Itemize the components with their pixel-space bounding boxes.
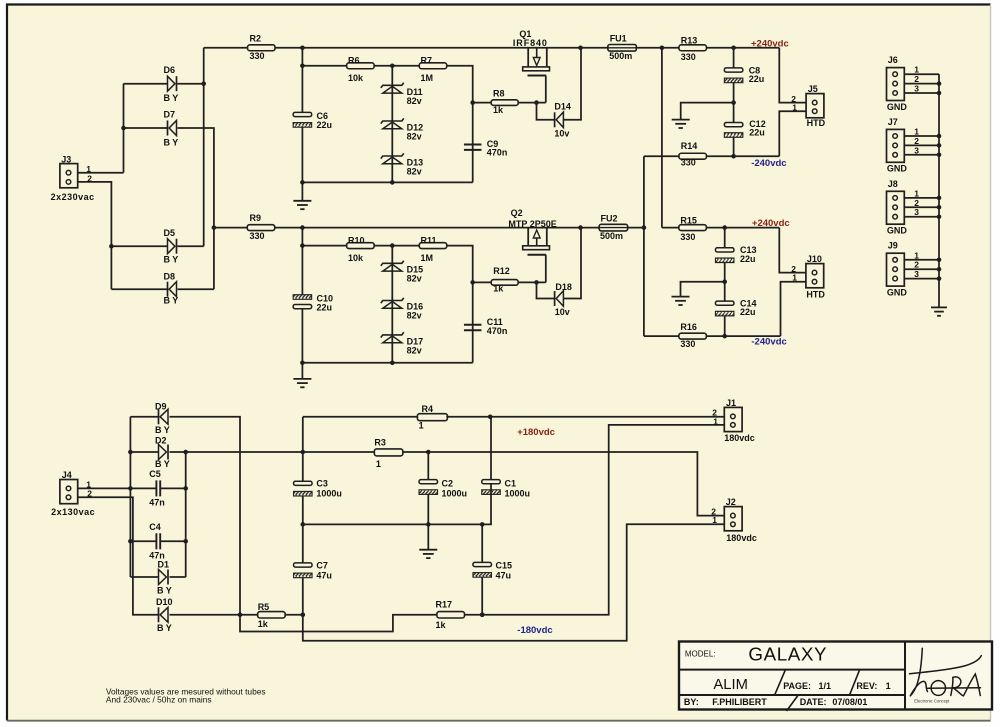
- svg-text:BY: BY: [155, 459, 172, 469]
- svg-text:3: 3: [914, 84, 919, 94]
- svg-text:D6: D6: [164, 65, 176, 75]
- svg-text:R7: R7: [421, 56, 433, 66]
- svg-text:R8: R8: [493, 89, 505, 99]
- svg-text:REV:: REV:: [856, 681, 877, 691]
- svg-text:PAGE:: PAGE:: [783, 681, 811, 691]
- svg-text:1000u: 1000u: [316, 489, 342, 499]
- svg-text:1: 1: [886, 681, 891, 691]
- svg-text:C15: C15: [496, 560, 513, 570]
- svg-text:1k: 1k: [493, 284, 504, 294]
- svg-text:82v: 82v: [407, 167, 422, 177]
- svg-text:47u: 47u: [496, 570, 512, 580]
- svg-text:1: 1: [712, 515, 717, 525]
- svg-text:82v: 82v: [407, 96, 422, 106]
- svg-text:330: 330: [681, 158, 696, 168]
- svg-text:22u: 22u: [317, 120, 333, 130]
- svg-text:BY: BY: [155, 425, 172, 435]
- svg-text:Electronic Concept: Electronic Concept: [914, 699, 950, 704]
- svg-text:2: 2: [87, 173, 92, 183]
- svg-text:1: 1: [713, 416, 718, 426]
- svg-text:R14: R14: [681, 141, 698, 151]
- svg-text:1000u: 1000u: [442, 489, 468, 499]
- svg-text:10v: 10v: [555, 307, 570, 317]
- svg-text:R16: R16: [680, 322, 697, 332]
- svg-text:C4: C4: [149, 522, 161, 532]
- svg-text:-240vdc: -240vdc: [751, 336, 786, 347]
- svg-text:BY: BY: [164, 138, 181, 148]
- svg-text:1: 1: [419, 421, 424, 431]
- svg-text:1/1: 1/1: [819, 681, 832, 691]
- svg-text:R6: R6: [348, 56, 360, 66]
- svg-text:22u: 22u: [740, 307, 756, 317]
- svg-text:2x130vac: 2x130vac: [51, 507, 95, 517]
- svg-text:MTP 2P50E: MTP 2P50E: [508, 219, 556, 229]
- svg-text:MODEL:: MODEL:: [685, 649, 716, 658]
- svg-text:82v: 82v: [407, 132, 422, 142]
- svg-text:1k: 1k: [258, 619, 269, 629]
- svg-text:J8: J8: [888, 179, 898, 189]
- svg-text:GND: GND: [887, 102, 908, 112]
- svg-text:1: 1: [376, 459, 381, 469]
- svg-text:FU1: FU1: [610, 33, 627, 43]
- svg-text:R9: R9: [250, 213, 262, 223]
- svg-text:22u: 22u: [749, 128, 765, 138]
- svg-text:22u: 22u: [749, 74, 765, 84]
- svg-text:D8: D8: [164, 272, 176, 282]
- svg-text:C3: C3: [316, 479, 328, 489]
- svg-text:500m: 500m: [609, 51, 632, 61]
- svg-text:+180vdc: +180vdc: [517, 427, 555, 438]
- svg-text:R13: R13: [681, 35, 698, 45]
- svg-text:BY: BY: [164, 255, 181, 265]
- svg-text:D9: D9: [155, 402, 167, 412]
- svg-text:180vdc: 180vdc: [726, 533, 757, 543]
- svg-text:3: 3: [914, 207, 919, 217]
- svg-text:J9: J9: [888, 241, 898, 251]
- svg-text:10k: 10k: [348, 253, 364, 263]
- svg-text:3: 3: [914, 145, 919, 155]
- svg-text:R3: R3: [374, 438, 386, 448]
- svg-text:FU2: FU2: [601, 213, 618, 223]
- svg-text:47n: 47n: [149, 498, 165, 508]
- svg-text:D14: D14: [554, 102, 571, 112]
- svg-text:BY: BY: [164, 93, 181, 103]
- svg-text:J3: J3: [61, 154, 71, 164]
- svg-text:+240vdc: +240vdc: [752, 218, 790, 229]
- svg-text:10k: 10k: [348, 73, 364, 83]
- svg-text:D10: D10: [156, 597, 173, 607]
- svg-text:10v: 10v: [554, 129, 569, 139]
- svg-text:C2: C2: [442, 479, 454, 489]
- svg-text:07/08/01: 07/08/01: [832, 697, 867, 707]
- svg-text:J7: J7: [888, 117, 898, 127]
- svg-text:1M: 1M: [421, 253, 434, 263]
- svg-text:470n: 470n: [487, 147, 508, 157]
- svg-text:And 230vac / 50hz on mains: And 230vac / 50hz on mains: [106, 695, 212, 705]
- svg-text:-240vdc: -240vdc: [751, 158, 786, 169]
- svg-text:C1: C1: [505, 479, 517, 489]
- svg-text:330: 330: [250, 231, 265, 241]
- svg-text:47u: 47u: [316, 570, 332, 580]
- svg-text:180vdc: 180vdc: [724, 433, 755, 443]
- svg-text:22u: 22u: [317, 303, 333, 313]
- svg-text:82v: 82v: [407, 346, 422, 356]
- svg-text:GALAXY: GALAXY: [748, 643, 827, 664]
- svg-text:470n: 470n: [487, 326, 508, 336]
- svg-text:330: 330: [250, 51, 265, 61]
- svg-text:D2: D2: [155, 436, 167, 446]
- svg-text:2: 2: [87, 489, 92, 499]
- svg-text:82v: 82v: [407, 311, 422, 321]
- svg-text:D7: D7: [164, 110, 176, 120]
- svg-text:R2: R2: [250, 33, 262, 43]
- svg-text:+240vdc: +240vdc: [751, 39, 789, 50]
- svg-text:ALIM: ALIM: [713, 677, 748, 693]
- svg-text:HTD: HTD: [807, 118, 826, 128]
- svg-text:J5: J5: [808, 84, 818, 94]
- svg-text:-180vdc: -180vdc: [517, 625, 552, 636]
- svg-text:R15: R15: [680, 215, 697, 225]
- svg-text:BY: BY: [157, 586, 174, 596]
- svg-text:R12: R12: [493, 266, 510, 276]
- svg-text:R10: R10: [348, 235, 365, 245]
- svg-text:2x230vac: 2x230vac: [51, 192, 95, 202]
- svg-text:1k: 1k: [493, 105, 504, 115]
- svg-text:330: 330: [680, 232, 695, 242]
- svg-text:J2: J2: [726, 497, 736, 507]
- svg-text:1: 1: [792, 273, 797, 283]
- svg-text:BY:: BY:: [684, 697, 699, 707]
- svg-text:R17: R17: [436, 600, 453, 610]
- svg-text:R5: R5: [258, 602, 270, 612]
- svg-text:BY: BY: [164, 296, 181, 306]
- svg-text:R4: R4: [422, 404, 434, 414]
- svg-text:J1: J1: [726, 398, 736, 408]
- svg-text:1: 1: [792, 103, 797, 113]
- svg-text:C7: C7: [316, 560, 328, 570]
- svg-text:C5: C5: [149, 469, 161, 479]
- svg-text:1000u: 1000u: [505, 489, 531, 499]
- svg-text:3: 3: [914, 269, 919, 279]
- svg-text:22u: 22u: [740, 254, 756, 264]
- svg-text:GND: GND: [887, 288, 908, 298]
- svg-text:IRF840: IRF840: [513, 38, 548, 48]
- svg-text:J6: J6: [888, 55, 898, 65]
- svg-text:GND: GND: [887, 226, 908, 236]
- svg-text:330: 330: [681, 52, 696, 62]
- svg-text:82v: 82v: [407, 274, 422, 284]
- svg-text:330: 330: [680, 339, 695, 349]
- svg-text:Q2: Q2: [511, 208, 523, 218]
- svg-text:F.PHILIBERT: F.PHILIBERT: [712, 697, 767, 707]
- svg-text:HTD: HTD: [806, 290, 825, 300]
- svg-text:D1: D1: [158, 560, 170, 570]
- svg-text:J10: J10: [807, 254, 822, 264]
- svg-text:DATE:: DATE:: [800, 697, 827, 707]
- svg-text:500m: 500m: [600, 231, 623, 241]
- svg-text:GND: GND: [887, 164, 908, 174]
- svg-text:1k: 1k: [436, 620, 447, 630]
- svg-text:1M: 1M: [421, 73, 434, 83]
- svg-text:R11: R11: [421, 235, 437, 245]
- svg-text:D5: D5: [164, 228, 176, 238]
- svg-text:BY: BY: [157, 623, 174, 633]
- svg-text:D18: D18: [555, 282, 572, 292]
- svg-text:J4: J4: [62, 470, 72, 480]
